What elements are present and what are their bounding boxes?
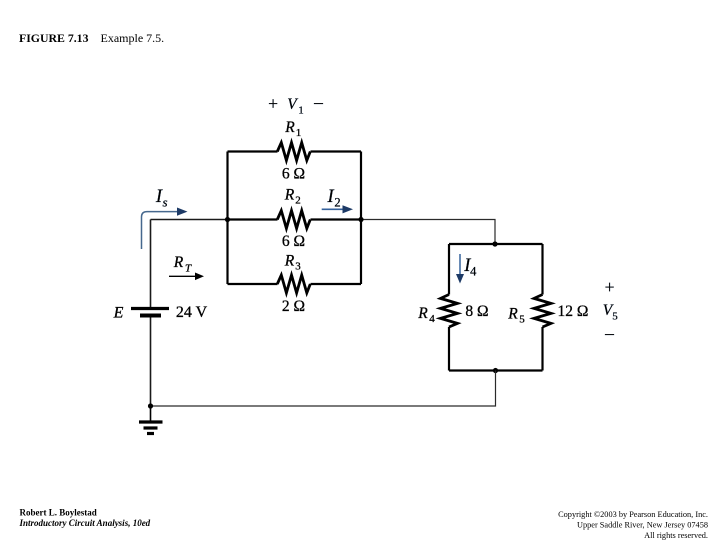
footer left credit <box>19 508 151 529</box>
current arrow I4 (downward) <box>456 254 464 284</box>
svg-text:2 Ω: 2 Ω <box>282 298 305 315</box>
label V1 with polarity <box>268 92 323 117</box>
arrow RT (black) <box>169 273 204 281</box>
svg-text:1: 1 <box>296 127 302 139</box>
svg-text:+: + <box>605 277 615 297</box>
svg-text:R: R <box>417 305 428 322</box>
svg-text:1: 1 <box>298 105 304 117</box>
ground symbol <box>139 406 163 434</box>
battery E symbol <box>131 309 169 316</box>
label I2 current <box>327 187 341 210</box>
label R4 <box>417 305 435 325</box>
svg-text:+: + <box>268 94 278 114</box>
svg-text:24 V: 24 V <box>176 304 208 321</box>
resistor R1 zigzag <box>277 143 310 161</box>
label R5 <box>507 306 525 326</box>
current arrow I2 <box>322 205 353 213</box>
svg-text:R: R <box>284 187 295 204</box>
node A junction dot <box>225 217 230 222</box>
wire: battery bottom to ground node <box>150 318 152 407</box>
right parallel box: top wire <box>449 243 543 245</box>
svg-text:Example 7.5.: Example 7.5. <box>101 31 165 45</box>
svg-text:Introductory Circuit Analysis,: Introductory Circuit Analysis, 10ed <box>19 518 151 528</box>
svg-text:R: R <box>173 254 184 271</box>
wire: node B to right box top corner <box>361 220 495 245</box>
node B junction dot <box>358 217 363 222</box>
svg-text:12 Ω: 12 Ω <box>558 303 589 320</box>
svg-text:2: 2 <box>334 196 340 210</box>
footer right copyright <box>558 510 708 540</box>
svg-text:5: 5 <box>519 314 525 326</box>
label RT <box>173 254 192 275</box>
svg-text:Robert L. Boylestad: Robert L. Boylestad <box>20 508 97 518</box>
resistor R2 zigzag <box>277 211 310 229</box>
svg-text:V: V <box>287 96 298 113</box>
node C junction dot (top of right box) <box>492 241 497 246</box>
label R2 <box>284 187 301 207</box>
svg-text:4: 4 <box>429 313 435 325</box>
svg-text:8 Ω: 8 Ω <box>465 303 488 320</box>
svg-text:Upper Saddle River, New Jersey: Upper Saddle River, New Jersey 07458 <box>577 520 708 529</box>
svg-text:T: T <box>185 263 192 275</box>
wire: middle horizontal (corner to left box) <box>151 219 228 221</box>
svg-text:R: R <box>284 253 295 270</box>
wire: middle horizontal R2 to node B <box>311 218 362 220</box>
svg-text:3: 3 <box>295 261 301 273</box>
svg-text:–: – <box>604 323 614 343</box>
left parallel box: right edge <box>360 152 362 285</box>
label I4 current <box>463 256 477 279</box>
right box left branch (R4) wires <box>448 244 450 371</box>
wire: bottom branch left of R3 <box>228 283 278 285</box>
label Is current <box>155 187 168 210</box>
svg-text:FIGURE 7.13: FIGURE 7.13 <box>19 31 89 45</box>
wire: bottom branch right of R3 <box>311 283 362 285</box>
svg-text:6 Ω: 6 Ω <box>282 166 305 183</box>
resistor R5 zigzag (vertical) <box>534 295 551 328</box>
wire: left rail top segment (battery to corner node) <box>150 220 152 308</box>
node D junction dot (bottom of right box) <box>493 368 498 373</box>
wire: top branch left of R1 <box>228 150 278 152</box>
svg-text:R: R <box>507 306 518 323</box>
right parallel box: bottom wire <box>449 369 543 371</box>
resistor R4 zigzag (vertical) <box>441 295 458 328</box>
label R1 <box>284 119 301 139</box>
svg-text:Copyright ©2003 by Pearson Edu: Copyright ©2003 by Pearson Education, In… <box>558 510 708 519</box>
wire: right box bottom to ground rail <box>151 371 496 407</box>
ground node junction dot <box>148 403 153 408</box>
svg-text:s: s <box>162 195 167 210</box>
svg-text:E: E <box>113 305 124 322</box>
svg-text:All rights reserved.: All rights reserved. <box>644 531 708 540</box>
label R3 <box>284 253 301 273</box>
svg-text:4: 4 <box>470 265 477 279</box>
title figure caption <box>19 31 164 45</box>
left parallel box: left edge <box>226 152 228 285</box>
svg-text:I: I <box>327 187 335 207</box>
label V5 with polarity <box>603 277 618 343</box>
wire: middle horizontal inside box left (node A to R2) <box>228 218 278 220</box>
svg-text:–: – <box>313 92 323 112</box>
svg-text:6 Ω: 6 Ω <box>282 233 305 250</box>
wire: top branch right of R1 <box>311 150 362 152</box>
svg-text:2: 2 <box>295 195 301 207</box>
right box right branch (R5) wires <box>541 244 543 371</box>
resistor R3 zigzag <box>277 275 310 293</box>
svg-text:R: R <box>284 119 295 136</box>
current arrow Is (curved lead + arrow) <box>142 208 188 250</box>
svg-text:5: 5 <box>612 311 618 323</box>
